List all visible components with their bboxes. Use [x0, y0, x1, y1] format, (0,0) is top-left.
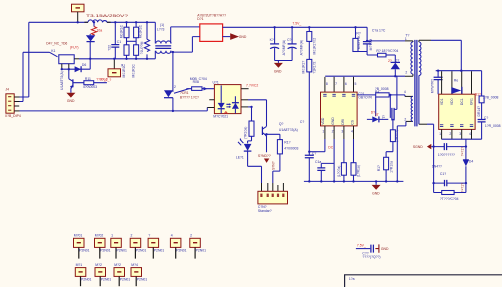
svg-text:Q?: Q? [279, 122, 284, 126]
wire secondary bottom [418, 75, 420, 124]
optocoupler U21 [213, 81, 242, 119]
svg-text:4: 4 [351, 129, 353, 133]
svg-text:5: 5 [355, 82, 357, 86]
triac SCR1 [164, 85, 199, 111]
svg-text:1?B_0008: 1?B_0008 [483, 95, 499, 99]
svg-text:1: 1 [405, 37, 407, 41]
test point TP5 [148, 234, 164, 259]
svg-text:M?C?021: M?C?021 [213, 114, 228, 118]
wire relay output rail [74, 58, 79, 60]
transformer T1 [404, 34, 421, 127]
svg-text:??0?_?: ??0?_? [100, 78, 111, 82]
capacitor C1 [107, 22, 121, 59]
svg-text:GND: GND [372, 191, 380, 195]
wire neutral rail [14, 110, 19, 112]
wire mains left vertical [28, 22, 30, 97]
connector J4 [5, 88, 21, 119]
resistor R4 gate [357, 87, 413, 116]
test point TP7 [190, 234, 206, 259]
svg-text:1?R_0008: 1?R_0008 [485, 124, 501, 128]
svg-text:P2N01: P2N01 [137, 278, 147, 282]
svg-text:M01R1C: M01R1C [139, 24, 143, 38]
ground SGND [258, 154, 276, 170]
svg-text:4?0\0003: 4?0\0003 [83, 85, 97, 89]
svg-text:8: 8 [326, 82, 328, 86]
svg-text:4: 4 [171, 234, 173, 238]
svg-text:4: 4 [469, 132, 471, 136]
resistor R1 bottom [122, 45, 129, 78]
capacitor C8 [431, 143, 466, 157]
svg-text:6: 6 [345, 82, 347, 86]
svg-text:X?B_DIP4: X?B_DIP4 [5, 114, 21, 118]
svg-text:VD1: VD1 [440, 98, 444, 105]
resistor R13 [434, 191, 466, 202]
op-amp U3 secondary IC [439, 94, 475, 129]
svg-text:1N4??: 1N4?? [432, 164, 442, 168]
svg-text:2T: 2T [375, 113, 379, 117]
svg-text:?+?1?: ?+?1? [460, 147, 464, 157]
svg-text:D4?_NC_?D6: D4?_NC_?D6 [46, 42, 67, 46]
svg-text:1: 1 [439, 132, 441, 136]
svg-text:7: 7 [335, 82, 337, 86]
svg-text:M01R1?02: M01R1?02 [313, 38, 317, 55]
transistor Q3 [60, 69, 73, 93]
svg-text:U1A8T?2(A): U1A8T?2(A) [279, 128, 298, 132]
svg-text:1?0??????: 1?0?????? [438, 153, 455, 157]
svg-text:C?: C? [300, 120, 304, 124]
svg-text:U?1: U?1 [213, 81, 219, 85]
wire U3 top pins [442, 71, 472, 94]
ground [274, 61, 283, 74]
svg-text:(1?R1a): (1?R1a) [356, 165, 360, 177]
svg-text:DR14?: DR14? [477, 106, 481, 117]
wire U3 bottom pins [439, 129, 471, 139]
wire relay feed [23, 52, 50, 101]
power port P1 [72, 4, 85, 12]
capacitor C4 [472, 103, 501, 139]
diode D1 [86, 34, 95, 42]
resistor R8 [351, 163, 360, 182]
capacitor C1a [315, 160, 334, 181]
wire relay coil pins [62, 64, 69, 69]
svg-text:(1): (1) [160, 23, 164, 27]
svg-text:M?1: M?1 [76, 263, 83, 267]
svg-text:LE?1: LE?1 [236, 156, 244, 160]
svg-text:M?W?R?: M?W?R? [431, 79, 435, 93]
diode D5 output [451, 87, 462, 94]
svg-text:GND: GND [331, 117, 335, 125]
ground [66, 93, 75, 103]
resistor R10 sense [377, 157, 393, 181]
resistor R11 [73, 77, 108, 89]
wire bus to transformer primary top [367, 40, 405, 42]
svg-text:S?ND??: S?ND?? [258, 154, 271, 158]
svg-text:P2N01: P2N01 [101, 278, 111, 282]
svg-text:B1?: B1? [475, 92, 481, 96]
test point TP9 [95, 263, 111, 286]
svg-text:?1R1?2: ?1R1?2 [313, 62, 317, 74]
svg-text:?22: ?22 [107, 45, 111, 51]
svg-text:M?02: M?02 [95, 234, 104, 238]
diode D6 [75, 63, 87, 72]
resistor R0a [174, 77, 214, 93]
svg-text:L??3: L??3 [157, 28, 165, 32]
svg-text:C1: C1 [117, 40, 121, 44]
svg-text:7.5V_: 7.5V_ [357, 244, 366, 248]
wire caps bottom [275, 60, 293, 62]
inductor L2 common-mode choke [155, 22, 200, 59]
wire secondary top [419, 40, 431, 42]
svg-text:1?a: 1?a [349, 277, 355, 281]
svg-text:T?: T? [382, 115, 386, 119]
ground GND arrow at bridge [223, 33, 247, 40]
svg-text:S?N?: S?N? [272, 161, 276, 170]
svg-text:?1U??M: ?1U??M [140, 41, 144, 54]
wire triac feed [172, 52, 174, 92]
svg-text:A?0MF(A): A?0MF(A) [282, 40, 286, 55]
svg-text:?T???/C?04: ?T???/C?04 [440, 197, 459, 201]
svg-text:P2N01: P2N01 [79, 249, 89, 253]
relay K1 [46, 42, 78, 64]
test point TP8 [75, 263, 91, 286]
svg-text:D4: D4 [469, 159, 473, 163]
capacitor C7 [431, 71, 443, 95]
resistor R12 [475, 71, 499, 117]
wire AC L rail [29, 21, 88, 23]
svg-text:????(?Q??): ????(?Q??) [362, 255, 380, 259]
svg-text:GND: GND [381, 247, 389, 251]
wire bridge lower left [192, 37, 199, 53]
resistor R9 sense [386, 130, 399, 158]
svg-text:2: 2 [405, 71, 407, 75]
svg-text:M?01: M?01 [74, 234, 83, 238]
wire resistor mid link [127, 40, 137, 42]
svg-text:C?: C? [312, 152, 316, 156]
wire secondary ground rail [304, 180, 404, 182]
svg-text:2?: 2? [388, 59, 392, 63]
svg-text:10a: 10a [97, 28, 103, 32]
svg-text:?: ? [148, 234, 150, 238]
ground SGND arrow [413, 144, 431, 149]
svg-text:R11: R11 [85, 77, 91, 81]
svg-text:P2N01: P2N01 [154, 249, 164, 253]
resistor R3b startup [302, 41, 317, 73]
svg-text:P2N01: P2N01 [81, 278, 91, 282]
svg-text:DRI: DRI [341, 119, 345, 125]
wire primary bottom / drain net [325, 75, 405, 77]
svg-text:2: 2 [131, 234, 133, 238]
svg-text:T3.15A/250V?: T3.15A/250V? [86, 14, 128, 18]
svg-text:R4: R4 [375, 90, 379, 94]
wire [89, 42, 91, 69]
wire DC bus [223, 26, 368, 28]
wire VDD branch [309, 151, 325, 153]
svg-text:M?4: M?4 [131, 263, 138, 267]
capacitor C10 [356, 244, 389, 259]
capacitor C6 [300, 72, 316, 181]
test point TP10 [114, 263, 130, 286]
capacitor C9 [434, 172, 466, 192]
svg-text:M01R1C: M01R1C [119, 24, 123, 38]
resistor R3a startup [307, 27, 317, 54]
wire connector stubs [268, 183, 284, 191]
svg-text:P2N01: P2N01 [136, 249, 146, 253]
svg-text:VD0: VD0 [450, 98, 454, 105]
svg-text:1: 1 [111, 234, 113, 238]
transistor Q1 MOSFET [382, 76, 397, 130]
wire feedback right [465, 139, 467, 192]
svg-text:2: 2 [449, 132, 451, 136]
svg-text:M?L/T?K: M?L/T?K [357, 35, 361, 49]
connector CON1 [258, 191, 288, 213]
svg-text:GND: GND [239, 35, 247, 39]
svg-text:D6: D6 [82, 63, 86, 67]
thermistor RT1 [91, 22, 102, 35]
svg-text:R1?: R1? [377, 165, 381, 171]
svg-text:C?: C? [287, 38, 291, 42]
svg-text:VDD: VDD [321, 117, 325, 125]
svg-text:2: 2 [174, 85, 176, 89]
svg-text:1?R10a: 1?R10a [389, 161, 393, 173]
svg-text:M01R1?: M01R1? [302, 61, 306, 74]
svg-text:4: 4 [404, 90, 406, 94]
transistor Q2 [262, 122, 297, 152]
test point TP6 [170, 234, 186, 259]
svg-text:(1?0?a): (1?0?a) [337, 166, 341, 178]
svg-text:D?1: D?1 [197, 17, 203, 21]
resistor R1b [267, 134, 299, 191]
ground [372, 181, 381, 195]
svg-text:K?: K? [270, 38, 274, 42]
varistor RV1 [140, 22, 150, 59]
capacitor C2 electrolytic [270, 27, 287, 60]
wire aux return [406, 120, 413, 122]
svg-text:SGND: SGND [413, 145, 423, 149]
svg-text:4?0\0003: 4?0\0003 [284, 147, 298, 151]
test point TP4 [130, 234, 146, 259]
svg-text:P2N01: P2N01 [117, 249, 127, 253]
svg-text:DC: DC [328, 145, 333, 149]
svg-text:(?R10a): (?R10a) [243, 127, 247, 139]
svg-text:C?: C? [484, 116, 488, 120]
svg-text:DC1: DC1 [460, 98, 464, 105]
svg-text:2: 2 [404, 118, 406, 122]
svg-text:2: 2 [332, 129, 334, 133]
svg-text:R1?: R1? [284, 141, 290, 145]
wire U2 bottom pins [322, 126, 353, 181]
power port X (minus) [100, 59, 124, 82]
wire J4 pins [14, 97, 19, 106]
svg-text:A?0MF(A): A?0MF(A) [300, 40, 304, 55]
wire LED to connector [248, 151, 262, 183]
wire secondary distribution [436, 70, 482, 72]
capacitor C3 electrolytic [287, 27, 304, 60]
svg-text:(1R10?): (1R10?) [395, 130, 399, 142]
diode D4 zener [432, 159, 473, 168]
svg-text:1: 1 [322, 129, 324, 133]
resistor R2 bottom [131, 45, 138, 78]
svg-text:Re: Re [454, 78, 458, 82]
svg-text:M?2: M?2 [114, 263, 121, 267]
op-amp U2 PWM controller [321, 77, 373, 126]
resistor R6 clamp [376, 49, 398, 57]
svg-text:D?: D? [395, 59, 399, 63]
test point TP1 [74, 234, 90, 259]
svg-text:R?: R? [356, 31, 360, 35]
svg-text:B?T?? 1?C?: B?T?? 1?C? [180, 95, 199, 99]
wire opto right pins [241, 84, 266, 127]
svg-text:U1A8T?2(A): U1A8T?2(A) [60, 71, 64, 90]
test point TP3 [111, 234, 127, 259]
svg-text:3: 3 [459, 132, 461, 136]
wire snubber bottom [356, 52, 378, 56]
svg-text:GN1: GN1 [470, 98, 474, 105]
svg-text:GND: GND [67, 99, 75, 103]
svg-text:M01R1C: M01R1C [131, 64, 135, 78]
test point TP11 [131, 263, 147, 286]
resistor R1 top [119, 22, 129, 45]
diode D4 clamp [388, 55, 400, 76]
resistor R5 snubber [353, 27, 361, 51]
title block border [345, 275, 502, 287]
svg-text:7.?V/C2: 7.?V/C2 [246, 84, 258, 88]
svg-text:P2N01: P2N01 [100, 249, 110, 253]
svg-text:3: 3 [341, 129, 343, 133]
svg-text:R? 18??/C?04: R? 18??/C?04 [376, 49, 398, 53]
wire opto left pin 2 [207, 100, 214, 108]
svg-text:P2N01: P2N01 [120, 278, 130, 282]
svg-text:GND: GND [274, 69, 282, 73]
resistor R14 [243, 107, 254, 139]
svg-text:C1?: C1? [440, 172, 446, 176]
svg-text:M?2: M?2 [95, 263, 102, 267]
resistor R7 [337, 163, 346, 182]
svg-text:CS: CS [350, 119, 354, 124]
wire coil bottom [62, 68, 90, 70]
svg-text:C?a 1?C: C?a 1?C [372, 28, 386, 32]
svg-text:P2N01: P2N01 [196, 249, 206, 253]
wire [77, 12, 79, 22]
svg-text:P2N01: P2N01 [176, 249, 186, 253]
bridge rectifier BD1 [197, 14, 226, 42]
diode D3 aux [367, 111, 388, 123]
svg-text:2: 2 [190, 234, 192, 238]
svg-text:(FU?): (FU?) [70, 46, 79, 50]
fuse F1 [84, 14, 128, 22]
capacitor C5 snubber [363, 27, 386, 52]
svg-text:?+?1?: ?+?1? [460, 183, 464, 193]
resistor R2 top [134, 22, 143, 45]
svg-text:Standar?: Standar? [258, 209, 272, 213]
svg-text:7.5V_: 7.5V_ [292, 22, 301, 26]
svg-text:K1: K1 [51, 49, 55, 53]
test point TP2 [95, 234, 111, 259]
svg-text:OB?O?R: OB?O?R [358, 96, 372, 100]
LED LE1 [236, 136, 252, 159]
svg-text:J4: J4 [5, 88, 9, 92]
svg-text:C1a: C1a [315, 160, 321, 164]
svg-text:R0a: R0a [193, 80, 199, 84]
